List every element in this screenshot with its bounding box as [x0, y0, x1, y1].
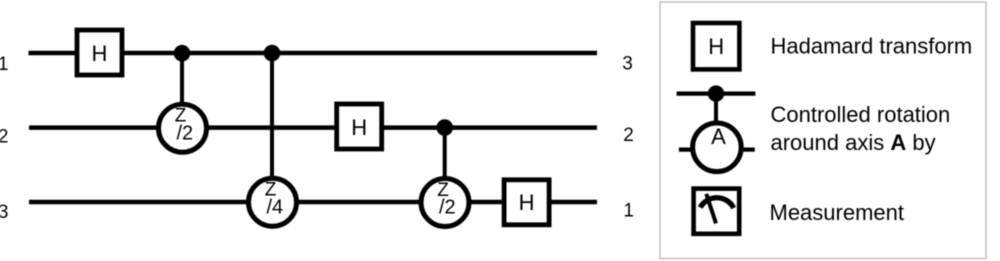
svg-text:Measurement: Measurement	[770, 200, 905, 225]
svg-text:/2: /2	[176, 122, 193, 144]
svg-text:around axis A by: around axis A by	[771, 130, 936, 155]
wire q1	[29, 51, 598, 56]
svg-text:Controlled rotation: Controlled rotation	[771, 102, 951, 127]
svg-text:2: 2	[0, 126, 9, 147]
svg-text:H: H	[92, 41, 108, 66]
legend right stub	[739, 148, 755, 152]
control dot 1 (wire 1)	[174, 45, 191, 62]
svg-text:2: 2	[623, 125, 634, 146]
vertical wire: control dot 1 to Z/2 gate	[180, 53, 184, 128]
wire q3	[29, 200, 597, 205]
svg-text:1: 1	[623, 201, 634, 222]
control dot 2 (wire 1)	[264, 45, 281, 62]
legend wire through control dot	[677, 91, 756, 95]
Hadamard gate H (wire 1)	[77, 30, 122, 75]
meter dial arc	[700, 198, 734, 208]
legend: Hadamard symbol box	[693, 23, 739, 69]
svg-text:H: H	[519, 190, 535, 215]
controlled rotation gate Z/2 (wire 3)	[421, 179, 469, 227]
vertical wire: control dot 2 to Z/4 gate	[270, 53, 274, 202]
Hadamard gate H (wire 3)	[504, 180, 549, 225]
svg-text:/2: /2	[439, 197, 456, 219]
legend control dot	[708, 85, 724, 101]
svg-text:A: A	[711, 124, 726, 149]
legend frame	[660, 2, 986, 259]
svg-text:/4: /4	[266, 197, 283, 219]
wire q2	[29, 125, 597, 130]
controlled rotation gate Z/2 (wire 2)	[159, 104, 207, 152]
svg-text:3: 3	[0, 202, 9, 223]
svg-text:H: H	[708, 34, 724, 59]
Hadamard gate H (wire 2)	[337, 104, 382, 149]
control dot 3 (wire 2)	[436, 119, 453, 136]
legend rotation circle A	[693, 123, 742, 172]
legend: controlled rotation symbol	[677, 85, 756, 171]
svg-text:Hadamard transform: Hadamard transform	[771, 33, 973, 58]
svg-text:1: 1	[0, 54, 9, 75]
legend: measurement symbol	[694, 189, 740, 234]
legend vertical link	[714, 94, 718, 130]
svg-text:H: H	[351, 115, 367, 140]
vertical wire: control dot 3 to Z/2 gate	[443, 128, 447, 203]
meter needle	[706, 194, 716, 224]
legend left stub	[679, 148, 695, 152]
controlled rotation gate Z/4 (wire 3)	[249, 178, 297, 226]
svg-text:3: 3	[622, 53, 633, 74]
